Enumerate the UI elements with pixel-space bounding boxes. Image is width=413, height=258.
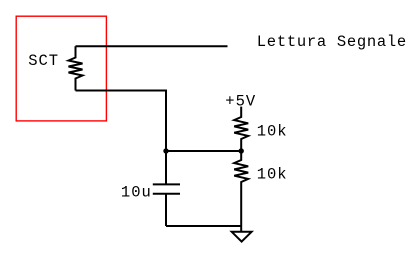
label 10u (C1 value) [121,183,151,201]
wire: SCT bottom right then down to node A [76,91,167,152]
ground [232,232,252,242]
label 10k (R1 value) [257,123,287,141]
label 10k (R2 value) [257,165,287,183]
wire: SCT top to Lettura Segnale output [76,45,228,47]
node A (junction dot) [163,148,168,153]
svg-text:Lettura Segnale: Lettura Segnale [257,33,406,51]
capacitor C1 10u [153,151,180,226]
resistor SCT (vertical zigzag) [69,46,83,90]
svg-text:10k: 10k [257,123,287,141]
node B (junction dot) [239,148,244,153]
resistor R1 10k (from +5V to node B) [234,107,248,151]
svg-text:10u: 10u [121,183,151,201]
label SCT [28,52,58,70]
power +5V label [225,92,256,110]
label Lettura Segnale [257,33,406,51]
wire: node A to node B horizontal [166,150,241,152]
wire: capacitor bottom to ground rail [166,225,241,227]
svg-text:SCT: SCT [28,52,58,70]
svg-text:10k: 10k [257,165,287,183]
box: red outline around SCT sensor [16,16,106,121]
resistor R2 10k (from node B to ground) [234,151,248,231]
